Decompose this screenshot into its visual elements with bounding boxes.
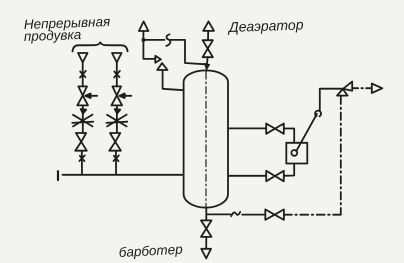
actuator arrow train1: [90, 95, 98, 97]
svg-text:Деаэратор: Деаэратор: [227, 16, 304, 35]
valve bowtie above vessel: [203, 40, 213, 57]
flow arrowhead train1: [81, 109, 87, 114]
valve bowtie train2 lower: [109, 133, 121, 151]
wire to break: [143, 39, 164, 41]
outlet arrow: [372, 84, 383, 93]
funnel triangle train1: [78, 53, 88, 62]
valve bowtie right upper: [266, 124, 284, 134]
wire train2 mid: [116, 105, 118, 133]
wire train1 lower: [81, 151, 83, 175]
vent triangle upper-left: [139, 21, 149, 31]
header wire to vessel: [63, 174, 184, 176]
valve bowtie barboter: [201, 220, 212, 237]
dashed wire drain to riser: [284, 214, 341, 216]
wire from break: [170, 40, 204, 64]
label "Непрерывная продувка": [24, 14, 111, 44]
regulator box: [286, 143, 307, 164]
junction dot node: [142, 38, 145, 41]
pivot hook: [315, 111, 321, 117]
lever: [296, 114, 317, 151]
vent arrow to deaerator: [203, 21, 214, 31]
break squiggle: [166, 34, 170, 46]
wire angle valve to vessel: [163, 70, 184, 90]
wire to regulator box top: [284, 129, 294, 143]
valve bowtie right lower: [266, 171, 284, 182]
vessel bottom outlet wire: [206, 207, 230, 214]
angle valve right (two triangles): [343, 82, 352, 91]
valve bowtie train1 lower: [75, 133, 87, 151]
wire to regulator box bottom: [284, 164, 294, 176]
float circle: [291, 150, 297, 156]
terminal bar node 1: [57, 171, 59, 180]
svg-text:продувка: продувка: [24, 27, 82, 44]
brace over blowdown trains: [73, 42, 128, 51]
outlet triangle to barboter: [201, 249, 211, 259]
valve bowtie drain: [265, 209, 284, 220]
valve bowtie train2 upper: [111, 86, 122, 105]
svg-text:барботер: барботер: [118, 242, 183, 260]
right nozzle upper wire: [228, 127, 266, 129]
wire train2 upper: [116, 62, 118, 86]
dashed outlet wire: [353, 87, 370, 89]
star valve train2: [106, 115, 127, 127]
vessel centreline: [205, 72, 207, 207]
star valve train1: [72, 115, 93, 127]
actuator arrow train2: [124, 95, 132, 97]
wire riser from pivot: [320, 89, 343, 111]
funnel triangle train2: [112, 53, 122, 62]
arrowhead into riser: [204, 63, 209, 69]
tick mark train2 lower: [114, 155, 119, 161]
wire train1 upper: [82, 62, 84, 86]
wire train1 mid: [82, 105, 84, 133]
steam trap tilde: [231, 212, 240, 216]
angle valve left (two triangles): [155, 56, 161, 63]
wire riser to vessel top: [206, 57, 207, 71]
wire vent drop: [142, 31, 144, 58]
vessel (expander drum): [184, 70, 228, 207]
wire: [207, 31, 209, 40]
wire train2 lower: [115, 151, 117, 175]
tick mark train2 upper: [114, 71, 120, 78]
dashed drop wire: [340, 97, 342, 215]
right nozzle lower wire: [228, 175, 266, 177]
wire below vessel: [205, 214, 207, 220]
valve bowtie train1 upper: [77, 86, 88, 105]
tick mark train1 upper: [80, 71, 86, 78]
wire: [205, 237, 207, 249]
tick mark train1 lower: [79, 155, 84, 161]
wire down to angle valve: [143, 58, 155, 60]
wire to drain valve: [242, 214, 265, 216]
flow arrowhead train2: [115, 109, 121, 114]
